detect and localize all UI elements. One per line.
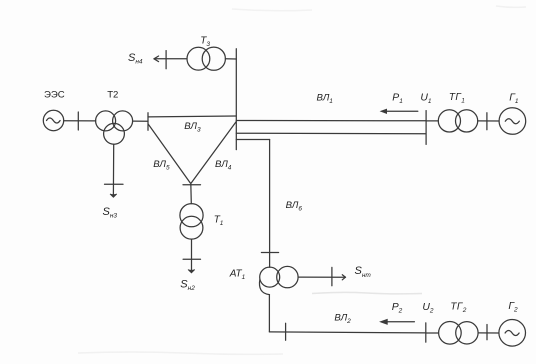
wire U1 to TG1 [426, 120, 438, 122]
wire EES to T2 [64, 120, 96, 122]
wire AT1 to load Snt [298, 276, 344, 278]
wire T1 to load Sn2 [191, 239, 193, 270]
transformer T2 (three-winding) [96, 111, 133, 144]
svg-text:Т2: Т2 [107, 89, 118, 100]
svg-text:ЭЭС: ЭЭС [44, 89, 65, 100]
autotransformer AT1 (АТ1) [259, 266, 298, 294]
power flow arrow P2 [379, 319, 414, 325]
bus U2 [425, 323, 427, 342]
breaker tick between EES and T2 [77, 112, 79, 130]
line VL6 vertical segment (ВЛ6) [269, 140, 271, 268]
line VL4 (ВЛ4) [191, 122, 236, 183]
line VL6 horizontal segment (ВЛ6) [236, 139, 269, 141]
wire node B to T1 [190, 183, 193, 204]
load tick Sn4 [165, 51, 167, 69]
line VL1 circuit 1 (ВЛ1) [236, 120, 426, 122]
main bus (vertical busbar) [235, 49, 237, 150]
power flow arrow P1 [380, 109, 418, 114]
system source EES (ЭЭС) [43, 110, 63, 130]
transformer T3 (two-winding) [187, 47, 225, 70]
wire TG1 to G1 [478, 120, 499, 122]
load arrow Sn2 [188, 270, 195, 273]
load arrow Sn3 [110, 194, 117, 197]
node A tick (bus at T2 HV side) [147, 113, 149, 131]
node B tick at triangle bottom vertex [183, 184, 201, 186]
transformer TG1 (ТГ1) [438, 110, 477, 132]
line VL3 (ВЛ3) [148, 115, 236, 118]
wire U2 to TG2 [426, 332, 439, 334]
breaker tick between TG2 and G2 [486, 325, 488, 340]
tick on VL2 [285, 323, 287, 340]
transformer T1 (two-winding) [180, 204, 203, 240]
wire TG2 to G2 [478, 332, 499, 334]
wire AT1 to VL2 corner [268, 295, 270, 332]
load tick Sn3 [105, 183, 124, 185]
tick on VL6 above AT1 [261, 252, 278, 254]
wire T2 tertiary to load Sn3 [112, 144, 114, 194]
line VL1 circuit 2 (ВЛ1) [236, 132, 426, 135]
line VL5 (ВЛ5) [148, 124, 190, 183]
load tick Snt [331, 267, 333, 285]
breaker tick between TG1 and G1 [486, 113, 488, 130]
generator G2 (Г2) [499, 320, 526, 347]
load tick Sn2 [183, 258, 200, 260]
load arrow Snt [342, 275, 345, 280]
generator G1 (Г1) [499, 108, 526, 135]
transformer TG2 (ТГ2) [439, 322, 478, 345]
load arrow Sn4 [154, 56, 159, 62]
wire T3 to main bus [225, 58, 236, 60]
line VL2 (ВЛ2) [269, 332, 425, 333]
bus U1 [425, 111, 427, 145]
wire T2 to node A [133, 120, 148, 122]
wire T3 to load Sn4 [154, 58, 187, 60]
